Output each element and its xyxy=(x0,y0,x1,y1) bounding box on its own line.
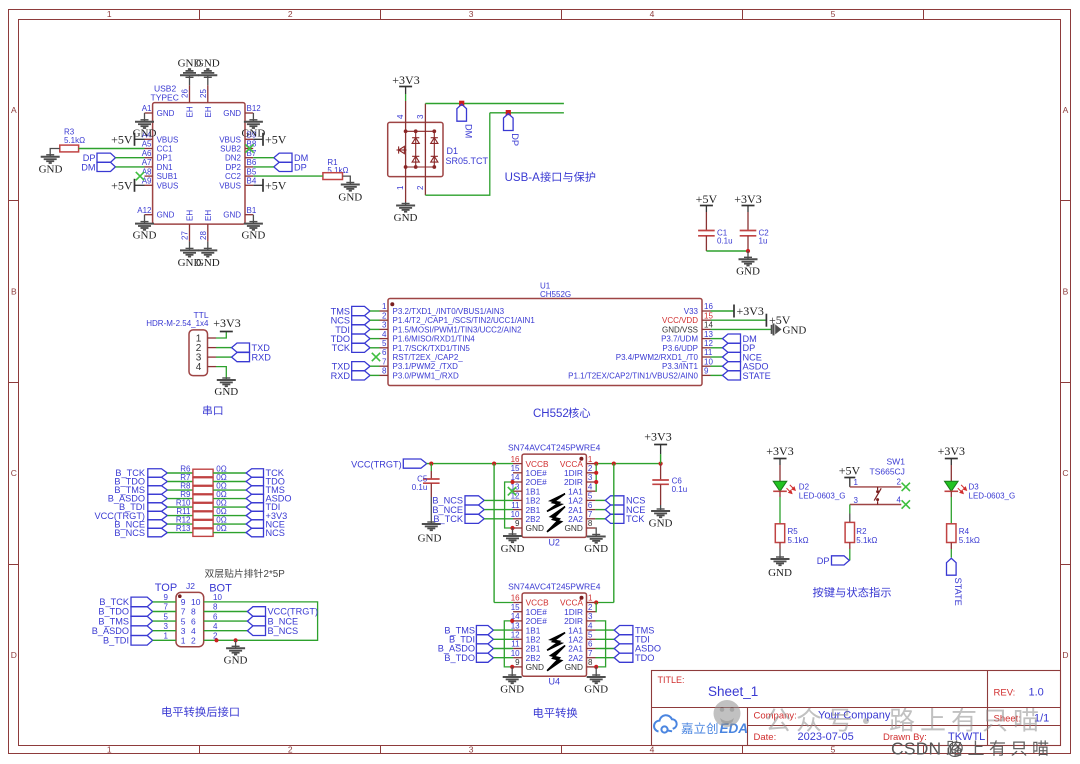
svg-text:RST/T2EX_/CAP2_: RST/T2EX_/CAP2_ xyxy=(393,353,464,362)
svg-text:8: 8 xyxy=(191,607,196,617)
svg-text:USB-A: USB-A xyxy=(505,172,540,184)
svg-text:1: 1 xyxy=(382,302,387,311)
svg-text:GND: GND xyxy=(526,523,544,533)
svg-text:GND/VSS: GND/VSS xyxy=(662,325,698,334)
svg-text:NCS: NCS xyxy=(266,528,285,538)
svg-text:B_TDO: B_TDO xyxy=(444,653,475,663)
svg-text:5.1kΩ: 5.1kΩ xyxy=(327,166,348,175)
wire net VCC(TRGT) rail right of U2 xyxy=(595,463,660,465)
svg-text:TCK: TCK xyxy=(332,343,351,353)
U2 pin stubs xyxy=(513,464,595,528)
svg-text:B: B xyxy=(1063,287,1069,297)
diode array D1 pin lines xyxy=(406,101,426,202)
svg-text:12: 12 xyxy=(511,492,520,501)
svg-text:P3.7/UDM: P3.7/UDM xyxy=(661,335,698,344)
svg-text:B_TMS: B_TMS xyxy=(98,616,129,626)
svg-text:TCK: TCK xyxy=(626,514,645,524)
svg-text:P3.3/INT1: P3.3/INT1 xyxy=(662,362,699,371)
resistor R5 xyxy=(779,497,781,524)
svg-text:3: 3 xyxy=(164,622,169,631)
svg-text:5: 5 xyxy=(181,616,186,626)
svg-text:10: 10 xyxy=(511,510,520,519)
svg-text:+3V3: +3V3 xyxy=(737,304,764,318)
TTL pin stubs xyxy=(208,338,217,367)
U1 left pin names xyxy=(393,307,536,380)
+5V at USB pin A4 xyxy=(135,138,145,140)
J2 inside pin numbers xyxy=(181,597,201,645)
svg-text:VCC/VDD: VCC/VDD xyxy=(662,316,698,325)
wire DM flag to DN1 xyxy=(115,166,144,168)
svg-text:R4: R4 xyxy=(959,527,970,536)
svg-text:B_TDI: B_TDI xyxy=(103,636,129,646)
wire +3V3 to rail at C6 xyxy=(660,454,662,464)
svg-text:+5V: +5V xyxy=(111,178,133,192)
svg-text:8: 8 xyxy=(588,658,593,667)
net flag B_NCE at J2 xyxy=(204,620,248,622)
net flag B_NCS at J2 xyxy=(204,630,248,632)
wire TTL pin1 to +3V3 xyxy=(216,332,226,339)
watermark icon xyxy=(714,700,741,727)
USB2 side pin stubs xyxy=(145,85,254,241)
svg-text:12: 12 xyxy=(704,339,713,348)
U1 pin numbers xyxy=(382,302,713,375)
wire C1 to C2 ground xyxy=(706,250,748,252)
svg-text:GND: GND xyxy=(157,211,175,220)
svg-text:+5V: +5V xyxy=(111,132,133,146)
svg-text:R13: R13 xyxy=(176,524,191,533)
wire U1 VCC to +5V xyxy=(711,319,767,321)
svg-text:GND: GND xyxy=(501,543,525,555)
junction C2 ground xyxy=(746,249,750,253)
ground at USB pin 28 xyxy=(207,241,209,250)
svg-text:DP: DP xyxy=(510,133,520,146)
svg-text:D2: D2 xyxy=(799,483,810,492)
svg-text:1: 1 xyxy=(588,455,593,464)
svg-text:4: 4 xyxy=(588,621,593,630)
net flag DM right xyxy=(274,153,292,162)
svg-text:4: 4 xyxy=(382,330,387,339)
connector USB2 TYPEC body xyxy=(153,103,245,225)
svg-text:3: 3 xyxy=(382,321,387,330)
svg-text:GND: GND xyxy=(39,164,63,176)
svg-text:TDO: TDO xyxy=(635,653,654,663)
ground at USB pin A1 xyxy=(144,113,146,122)
svg-text:A7: A7 xyxy=(142,158,152,167)
svg-text:7: 7 xyxy=(588,649,593,658)
svg-text:16: 16 xyxy=(511,594,520,603)
svg-text:Date:: Date: xyxy=(754,732,777,743)
ground at U2 pin9 xyxy=(512,528,514,536)
svg-text:GND: GND xyxy=(196,58,220,70)
svg-text:16: 16 xyxy=(704,302,713,311)
svg-text:0Ω: 0Ω xyxy=(216,524,226,533)
USB2 pin numbers xyxy=(137,89,261,240)
svg-text:DP2: DP2 xyxy=(225,163,241,172)
svg-text:7: 7 xyxy=(181,607,186,617)
svg-text:P3.4/PWM2/RXD1_/T0: P3.4/PWM2/RXD1_/T0 xyxy=(616,353,699,362)
svg-text:B_ASDO: B_ASDO xyxy=(92,626,129,636)
junction at U4 branch left xyxy=(492,462,496,466)
wire DN2 to DM flag xyxy=(253,157,274,159)
svg-text:REV:: REV: xyxy=(994,688,1016,699)
svg-text:+3V3: +3V3 xyxy=(766,444,793,458)
ground at U4 pin8 xyxy=(595,667,597,677)
capacitor C6 xyxy=(660,464,662,480)
svg-text:GND: GND xyxy=(394,212,418,224)
svg-text:13: 13 xyxy=(704,330,713,339)
svg-text:P3.2/TXD1_/INT0/VBUS1/AIN3: P3.2/TXD1_/INT0/VBUS1/AIN3 xyxy=(393,307,505,316)
wire into U4 pin16 xyxy=(494,602,513,604)
svg-text:2: 2 xyxy=(588,464,593,473)
svg-text:26: 26 xyxy=(181,89,190,98)
svg-text:CC1: CC1 xyxy=(157,145,174,154)
svg-text:+5V: +5V xyxy=(839,464,861,478)
net flag DP vertical xyxy=(504,114,514,131)
wire TTL pin4 to ground xyxy=(216,367,226,380)
svg-text:5.1kΩ: 5.1kΩ xyxy=(856,536,877,545)
svg-text:B_NCS: B_NCS xyxy=(114,528,145,538)
junction at C6 xyxy=(659,462,663,466)
svg-text:SR05.TCT: SR05.TCT xyxy=(446,156,489,166)
svg-text:16: 16 xyxy=(511,455,520,464)
svg-text:5.1kΩ: 5.1kΩ xyxy=(959,536,980,545)
net flag TXD at TTL xyxy=(216,347,232,349)
net flags DM DP NCE ASDO STATE at U1 xyxy=(711,338,723,340)
junction U2 pin9 xyxy=(510,526,514,530)
svg-text:P1.5/MOSI/PWM1/TIN3/UCC2/AIN2: P1.5/MOSI/PWM1/TIN3/UCC2/AIN2 xyxy=(393,325,522,334)
svg-text:B: B xyxy=(11,287,17,297)
ground at D1 pin 1 xyxy=(405,202,407,205)
EasyEDA logo xyxy=(654,715,677,732)
svg-text:3: 3 xyxy=(416,114,425,119)
diode array D1 body xyxy=(388,122,443,176)
svg-text:+3V3: +3V3 xyxy=(213,316,240,330)
svg-text:8: 8 xyxy=(382,367,387,376)
svg-text:RXD: RXD xyxy=(331,371,351,381)
resistor R4 xyxy=(950,497,952,524)
ground at USB pin 26 xyxy=(189,75,191,85)
U2 direction arrows xyxy=(547,494,565,512)
U1 pin stubs xyxy=(380,311,711,375)
section label serial port xyxy=(203,405,222,415)
svg-text:5: 5 xyxy=(588,492,593,501)
no-connect X at U2 1B1 xyxy=(508,487,516,495)
USB2 pin names xyxy=(157,106,242,221)
svg-text:5: 5 xyxy=(164,612,169,621)
wire net DP horizontal xyxy=(490,112,564,114)
wire R3 to ground xyxy=(50,149,60,157)
svg-text:GND: GND xyxy=(584,684,608,696)
svg-text:B_NCE: B_NCE xyxy=(268,616,299,626)
svg-text:TITLE:: TITLE: xyxy=(658,675,685,685)
svg-text:GND: GND xyxy=(500,684,524,696)
wire DP flag to DP1 xyxy=(115,157,144,159)
svg-text:J2: J2 xyxy=(186,581,195,591)
net flag STATE at R4 xyxy=(947,558,957,575)
wire U4 2DIR tie to ground xyxy=(596,621,606,667)
svg-text:A12: A12 xyxy=(137,206,152,215)
+5V at USB pin B4 xyxy=(253,184,263,186)
junction U4 pin9 xyxy=(510,665,514,669)
svg-text:B5: B5 xyxy=(247,167,257,176)
svg-text:14: 14 xyxy=(704,321,713,330)
svg-text:P1.7/SCK/TXD1/TIN5: P1.7/SCK/TXD1/TIN5 xyxy=(393,344,471,353)
svg-text:DP: DP xyxy=(817,556,830,566)
svg-text:SW1: SW1 xyxy=(887,457,906,467)
svg-text:3: 3 xyxy=(469,9,474,19)
svg-text:4: 4 xyxy=(650,745,655,755)
svg-text:GND: GND xyxy=(214,386,238,398)
ground at J2 xyxy=(235,640,237,648)
svg-text:9: 9 xyxy=(704,367,709,376)
svg-text:P1.4/T2_/CAP1_/SCS/TIN2/UCC1/A: P1.4/T2_/CAP1_/SCS/TIN2/UCC1/AIN1 xyxy=(393,316,536,325)
svg-text:GND: GND xyxy=(223,109,241,118)
wire U2 DIR tie to VCCA xyxy=(594,464,597,492)
svg-text:0.1u: 0.1u xyxy=(672,485,688,494)
svg-text:TS665CJ: TS665CJ xyxy=(870,467,905,477)
svg-text:SN74AVC4T245PWRE4: SN74AVC4T245PWRE4 xyxy=(508,582,601,592)
svg-text:2: 2 xyxy=(588,603,593,612)
svg-text:5: 5 xyxy=(382,339,387,348)
svg-text:GND: GND xyxy=(241,128,265,140)
border column numbers xyxy=(107,9,836,755)
svg-text:2023-07-05: 2023-07-05 xyxy=(798,731,854,743)
svg-text:GND: GND xyxy=(418,533,442,545)
no-connect X at USB pin B8 xyxy=(245,144,253,152)
svg-text:5: 5 xyxy=(588,631,593,640)
svg-text:5: 5 xyxy=(831,9,836,19)
junction U2 2OE# xyxy=(510,480,514,484)
svg-text:2: 2 xyxy=(288,9,293,19)
svg-text:STATE: STATE xyxy=(743,371,771,381)
svg-text:6: 6 xyxy=(382,348,387,357)
svg-text:GND: GND xyxy=(783,324,807,336)
ground at USB pin 27 xyxy=(189,241,191,250)
no-connect X at U1 RST xyxy=(372,353,380,361)
wire SW1 pin3 to R2 xyxy=(849,505,851,514)
svg-text:B_TDO: B_TDO xyxy=(98,607,129,617)
svg-text:B_NCS: B_NCS xyxy=(268,626,299,636)
wire net VCC(TRGT) rail left xyxy=(427,463,513,465)
label dual resistor pack xyxy=(205,569,263,578)
+5V at USB pin A9 xyxy=(135,184,145,186)
svg-text:3: 3 xyxy=(181,626,186,636)
wire U4 1DIR tie to VCCA xyxy=(595,603,598,612)
led D2 xyxy=(779,465,781,481)
switch SW1 body xyxy=(850,487,902,505)
svg-text:D3: D3 xyxy=(969,483,980,492)
svg-text:+3V3: +3V3 xyxy=(392,73,419,87)
wire into U4 pin1 xyxy=(596,602,614,604)
svg-text:3: 3 xyxy=(469,745,474,755)
svg-text:P1.6/MISO/RXD1/TIN4: P1.6/MISO/RXD1/TIN4 xyxy=(393,335,476,344)
D1 internal diodes xyxy=(397,130,438,169)
wire U2 OE to GND net xyxy=(505,482,513,528)
svg-text:GND: GND xyxy=(526,662,544,672)
svg-text:DM: DM xyxy=(463,124,473,138)
svg-text:P3.6/UDP: P3.6/UDP xyxy=(662,344,698,353)
svg-text:DP: DP xyxy=(294,162,307,172)
svg-text:DN1: DN1 xyxy=(157,163,174,172)
junctions on J2 ground wire xyxy=(214,638,218,642)
svg-text:P3.0/PWM1_/RXD: P3.0/PWM1_/RXD xyxy=(393,371,459,380)
svg-text:4: 4 xyxy=(897,495,902,504)
wire VCCA down to U4 right xyxy=(613,464,615,603)
net flag VCC(TRGT) at J2 xyxy=(204,611,248,613)
svg-text:1: 1 xyxy=(107,9,112,19)
svg-text:EH: EH xyxy=(204,106,213,117)
svg-text:4: 4 xyxy=(650,9,655,19)
ground at USB pin B1 xyxy=(252,215,254,224)
svg-text:R2: R2 xyxy=(856,527,867,536)
svg-text:GND: GND xyxy=(133,230,157,242)
svg-text:A5: A5 xyxy=(142,140,152,149)
ground at U4 pin9 xyxy=(511,667,513,677)
J2 outside pin numbers xyxy=(164,593,223,640)
net flag DM vertical xyxy=(457,104,467,121)
ground at TTL xyxy=(217,378,236,386)
wire net DM from D1 pin3 xyxy=(425,103,564,105)
svg-text:RXD: RXD xyxy=(252,353,272,363)
svg-text:3: 3 xyxy=(588,612,593,621)
svg-text:B6: B6 xyxy=(247,158,257,167)
svg-text:B12: B12 xyxy=(247,104,262,113)
wire J2 pin10 loop xyxy=(204,602,318,640)
svg-text:D: D xyxy=(11,650,17,660)
svg-text:10: 10 xyxy=(213,593,222,602)
svg-text:Sheet_1: Sheet_1 xyxy=(708,684,758,699)
svg-text:SN74AVC4T245PWRE4: SN74AVC4T245PWRE4 xyxy=(508,443,601,453)
svg-text:27: 27 xyxy=(181,231,190,240)
U4 pin stubs xyxy=(513,603,595,667)
svg-text:+3V3: +3V3 xyxy=(938,444,965,458)
svg-text:GND: GND xyxy=(736,266,760,278)
svg-text:GND: GND xyxy=(584,543,608,555)
svg-text:VBUS: VBUS xyxy=(219,135,241,144)
U2 pin names xyxy=(526,459,584,533)
svg-text:9: 9 xyxy=(515,658,520,667)
svg-text:6: 6 xyxy=(588,501,593,510)
net flags TMS TDI ASDO TDO at U4 xyxy=(596,629,615,631)
svg-text:VBUS: VBUS xyxy=(157,181,179,190)
svg-text:LED-0603_G: LED-0603_G xyxy=(799,491,846,500)
led D3 xyxy=(950,465,952,481)
svg-text:A: A xyxy=(11,105,17,115)
svg-text:HDR-M-2.54_1x4: HDR-M-2.54_1x4 xyxy=(146,319,209,328)
svg-text:VCC(TRGT): VCC(TRGT) xyxy=(351,459,402,469)
wire DP down to D1 pin2 xyxy=(425,113,489,195)
svg-text:+5V: +5V xyxy=(696,192,718,206)
junction U4 pin8 xyxy=(594,665,598,669)
ground at USB pin A12 xyxy=(144,215,146,224)
svg-text:GND: GND xyxy=(133,128,157,140)
wire U4 OE to GND net xyxy=(504,621,513,667)
svg-text:CH552: CH552 xyxy=(533,408,569,420)
junction on DP wire xyxy=(506,110,511,115)
D3 emission arrows xyxy=(958,485,967,494)
svg-text:4: 4 xyxy=(396,114,405,119)
section label level shifting xyxy=(534,707,577,717)
svg-text:2: 2 xyxy=(191,636,196,646)
svg-text:6: 6 xyxy=(588,640,593,649)
svg-text:B_TCK: B_TCK xyxy=(433,514,463,524)
svg-text:1: 1 xyxy=(396,185,405,190)
svg-text:3: 3 xyxy=(854,496,859,505)
wire DP2 to DP flag xyxy=(253,166,274,168)
svg-text:10: 10 xyxy=(511,649,520,658)
ground at USB pin 25 xyxy=(207,75,209,85)
svg-text:10: 10 xyxy=(191,597,201,607)
svg-text:8: 8 xyxy=(213,603,218,612)
svg-text:DM: DM xyxy=(81,162,95,172)
svg-text:8: 8 xyxy=(588,519,593,528)
svg-text:STATE: STATE xyxy=(953,578,963,606)
svg-text:B_TCK: B_TCK xyxy=(99,597,129,607)
+3V3 at U2 xyxy=(654,444,667,446)
wire CC2 to R1 xyxy=(253,175,323,177)
wire VCC(TRGT) down to U4 left xyxy=(493,464,495,603)
svg-text:2: 2 xyxy=(382,311,387,320)
ground at R5 xyxy=(779,543,781,549)
junction U2 1DIR xyxy=(594,471,598,475)
no-connect X at USB pin A8 xyxy=(136,172,144,180)
svg-text:1: 1 xyxy=(164,632,169,641)
svg-text:EH: EH xyxy=(186,106,195,117)
svg-text:+5V: +5V xyxy=(265,132,287,146)
svg-text:D1: D1 xyxy=(447,146,459,156)
svg-text:EH: EH xyxy=(204,210,213,221)
+3V3 at TTL xyxy=(220,331,233,333)
svg-text:4: 4 xyxy=(196,362,202,373)
svg-text:C: C xyxy=(11,468,17,478)
svg-text:DP1: DP1 xyxy=(157,154,173,163)
ground right at U1 pin14 xyxy=(772,323,782,335)
svg-text:D: D xyxy=(1062,650,1068,660)
capacitor C1 xyxy=(705,212,707,231)
svg-text:+3V3: +3V3 xyxy=(734,192,761,206)
svg-text:A: A xyxy=(1063,105,1069,115)
svg-text:GND: GND xyxy=(196,257,220,269)
svg-text:6: 6 xyxy=(191,616,196,626)
svg-text:6: 6 xyxy=(213,612,218,621)
ground at C6 xyxy=(651,509,670,517)
svg-text:P1.1/T2EX/CAP2/TIN1/VBUS2/AIN0: P1.1/T2EX/CAP2/TIN1/VBUS2/AIN0 xyxy=(568,371,698,380)
svg-text:VBUS: VBUS xyxy=(157,135,179,144)
svg-text:A6: A6 xyxy=(142,149,152,158)
svg-text:GND: GND xyxy=(241,230,265,242)
mcu U1 CH552G body xyxy=(388,299,702,386)
svg-text:11: 11 xyxy=(511,501,520,510)
svg-text:0.1u: 0.1u xyxy=(412,483,428,492)
title block lines xyxy=(652,671,1061,746)
svg-text:GND: GND xyxy=(157,109,175,118)
svg-text:VBUS: VBUS xyxy=(219,181,241,190)
svg-text:TXD: TXD xyxy=(252,343,271,353)
svg-text:EH: EH xyxy=(186,210,195,221)
junction U4 VCCA xyxy=(594,600,598,604)
svg-text:R5: R5 xyxy=(788,527,799,536)
+3V3 at U1 pin16 xyxy=(733,305,735,318)
section label keys and status xyxy=(813,587,891,598)
svg-text:GND: GND xyxy=(223,211,241,220)
svg-text:10: 10 xyxy=(704,357,713,366)
svg-text:25: 25 xyxy=(199,89,208,98)
svg-text:9: 9 xyxy=(164,593,169,602)
junction U2 VCCA xyxy=(594,462,598,466)
ground at R3 xyxy=(41,155,60,163)
net flag DP right xyxy=(274,162,292,171)
svg-text:V33: V33 xyxy=(684,307,699,316)
